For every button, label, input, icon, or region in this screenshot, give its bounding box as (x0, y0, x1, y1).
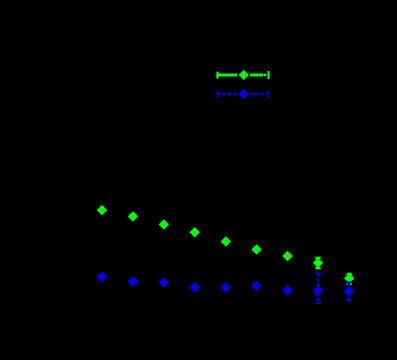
legend green right cap (267, 71, 269, 79)
legend green left cap (216, 72, 218, 79)
green data point 8 (313, 258, 323, 268)
green errorbar point 9 (347, 273, 352, 285)
green errorbar point 8 (315, 257, 320, 270)
legend green diamond (238, 69, 250, 81)
green data point 2 (128, 211, 138, 221)
legend green line (216, 74, 263, 77)
green data point 6 (251, 244, 261, 254)
green data point 7 (282, 251, 292, 261)
green data point 4 (190, 227, 200, 237)
blue data point 1 (97, 272, 107, 282)
legend blue dashed line (217, 93, 268, 95)
blue data point 8 (313, 286, 323, 296)
legend blue diamond (238, 88, 250, 100)
blue data point 2 (128, 276, 138, 286)
blue data point 6 (251, 281, 261, 291)
green data point 5 (221, 236, 231, 246)
green data point 1 (97, 205, 107, 215)
blue data point 3 (159, 277, 169, 287)
green data point 9 (344, 273, 354, 283)
legend blue series sample (217, 88, 269, 100)
blue data point 4 (190, 282, 200, 292)
blue errorbar point 9 (346, 282, 351, 300)
green data point 3 (159, 219, 169, 229)
legend green series sample (216, 69, 269, 81)
legend blue right cap (268, 91, 270, 97)
blue data point 9 (344, 286, 354, 296)
blue data point 5 (221, 282, 231, 292)
blue errorbar point 8 (315, 273, 320, 303)
blue data point 7 (282, 285, 292, 295)
legend blue left cap (216, 91, 218, 97)
legend green dash (264, 74, 267, 77)
